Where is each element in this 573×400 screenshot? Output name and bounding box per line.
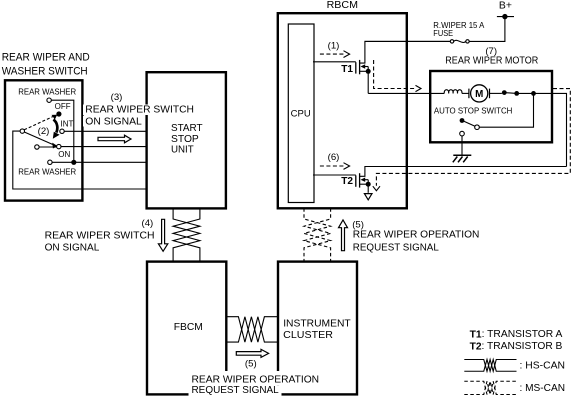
svg-text:ON SIGNAL: ON SIGNAL bbox=[85, 116, 142, 127]
svg-text:FUSE: FUSE bbox=[433, 28, 453, 38]
svg-text:OFF: OFF bbox=[55, 102, 71, 111]
svg-text:INT: INT bbox=[61, 119, 74, 128]
svg-text:T2: T2 bbox=[341, 176, 353, 187]
svg-text:INSTRUMENT: INSTRUMENT bbox=[283, 318, 351, 329]
svg-text:UNIT: UNIT bbox=[171, 145, 194, 156]
svg-text:REQUEST SIGNAL: REQUEST SIGNAL bbox=[192, 385, 279, 396]
svg-text:WASHER SWITCH: WASHER SWITCH bbox=[2, 65, 88, 77]
svg-text:REAR WIPER SWITCH: REAR WIPER SWITCH bbox=[45, 231, 155, 242]
svg-text:T2: TRANSISTOR B: T2: TRANSISTOR B bbox=[470, 341, 563, 352]
svg-text:(2): (2) bbox=[38, 126, 50, 137]
svg-text:M: M bbox=[475, 89, 483, 100]
svg-text:REAR WASHER: REAR WASHER bbox=[18, 168, 76, 177]
svg-text:REAR WIPER OPERATION: REAR WIPER OPERATION bbox=[353, 230, 480, 241]
svg-text:STOP: STOP bbox=[171, 134, 199, 145]
svg-text:ON: ON bbox=[58, 150, 70, 159]
svg-text:B+: B+ bbox=[499, 1, 512, 12]
svg-text:T1: T1 bbox=[341, 64, 353, 75]
svg-text:(5): (5) bbox=[352, 220, 364, 231]
svg-text:RBCM: RBCM bbox=[327, 0, 358, 11]
svg-text:FBCM: FBCM bbox=[174, 322, 203, 333]
svg-text:AUTO STOP SWITCH: AUTO STOP SWITCH bbox=[434, 105, 513, 115]
svg-text:(4): (4) bbox=[142, 218, 154, 229]
svg-text:: HS-CAN: : HS-CAN bbox=[520, 360, 566, 371]
svg-text:T1: TRANSISTOR A: T1: TRANSISTOR A bbox=[470, 329, 563, 340]
svg-text:(1): (1) bbox=[328, 40, 340, 51]
svg-text:REAR WIPER SWITCH: REAR WIPER SWITCH bbox=[85, 105, 194, 116]
svg-text:: MS-CAN: : MS-CAN bbox=[520, 383, 566, 394]
svg-text:REAR WIPER AND: REAR WIPER AND bbox=[2, 52, 90, 64]
svg-text:REAR WIPER MOTOR: REAR WIPER MOTOR bbox=[445, 56, 538, 67]
svg-text:(5): (5) bbox=[245, 359, 257, 370]
svg-text:(3): (3) bbox=[111, 92, 123, 103]
svg-text:REQUEST SIGNAL: REQUEST SIGNAL bbox=[353, 243, 439, 254]
svg-text:(7): (7) bbox=[485, 46, 497, 57]
svg-text:ON SIGNAL: ON SIGNAL bbox=[45, 243, 100, 254]
svg-text:CLUSTER: CLUSTER bbox=[283, 330, 333, 341]
svg-text:START: START bbox=[171, 123, 203, 134]
svg-text:REAR WASHER: REAR WASHER bbox=[18, 88, 76, 97]
svg-text:(6): (6) bbox=[328, 152, 340, 163]
svg-text:CPU: CPU bbox=[291, 109, 311, 120]
